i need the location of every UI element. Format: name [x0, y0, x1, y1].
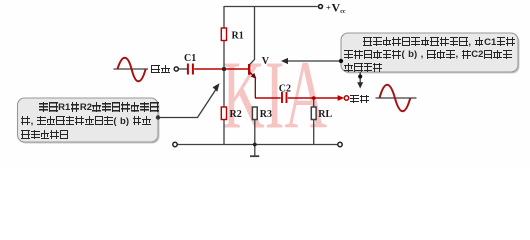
- svg-text:KIA: KIA: [222, 42, 327, 149]
- svg-text:RL: RL: [318, 109, 332, 120]
- svg-text:+: +: [326, 2, 331, 12]
- svg-text:C2: C2: [279, 84, 291, 95]
- svg-text:cc: cc: [340, 9, 346, 15]
- svg-text:R1: R1: [232, 31, 244, 42]
- svg-text:R3: R3: [260, 109, 272, 120]
- svg-text:V: V: [262, 56, 270, 67]
- svg-text:R2: R2: [230, 109, 242, 120]
- svg-text:C1: C1: [184, 53, 196, 64]
- svg-text:V: V: [332, 0, 341, 14]
